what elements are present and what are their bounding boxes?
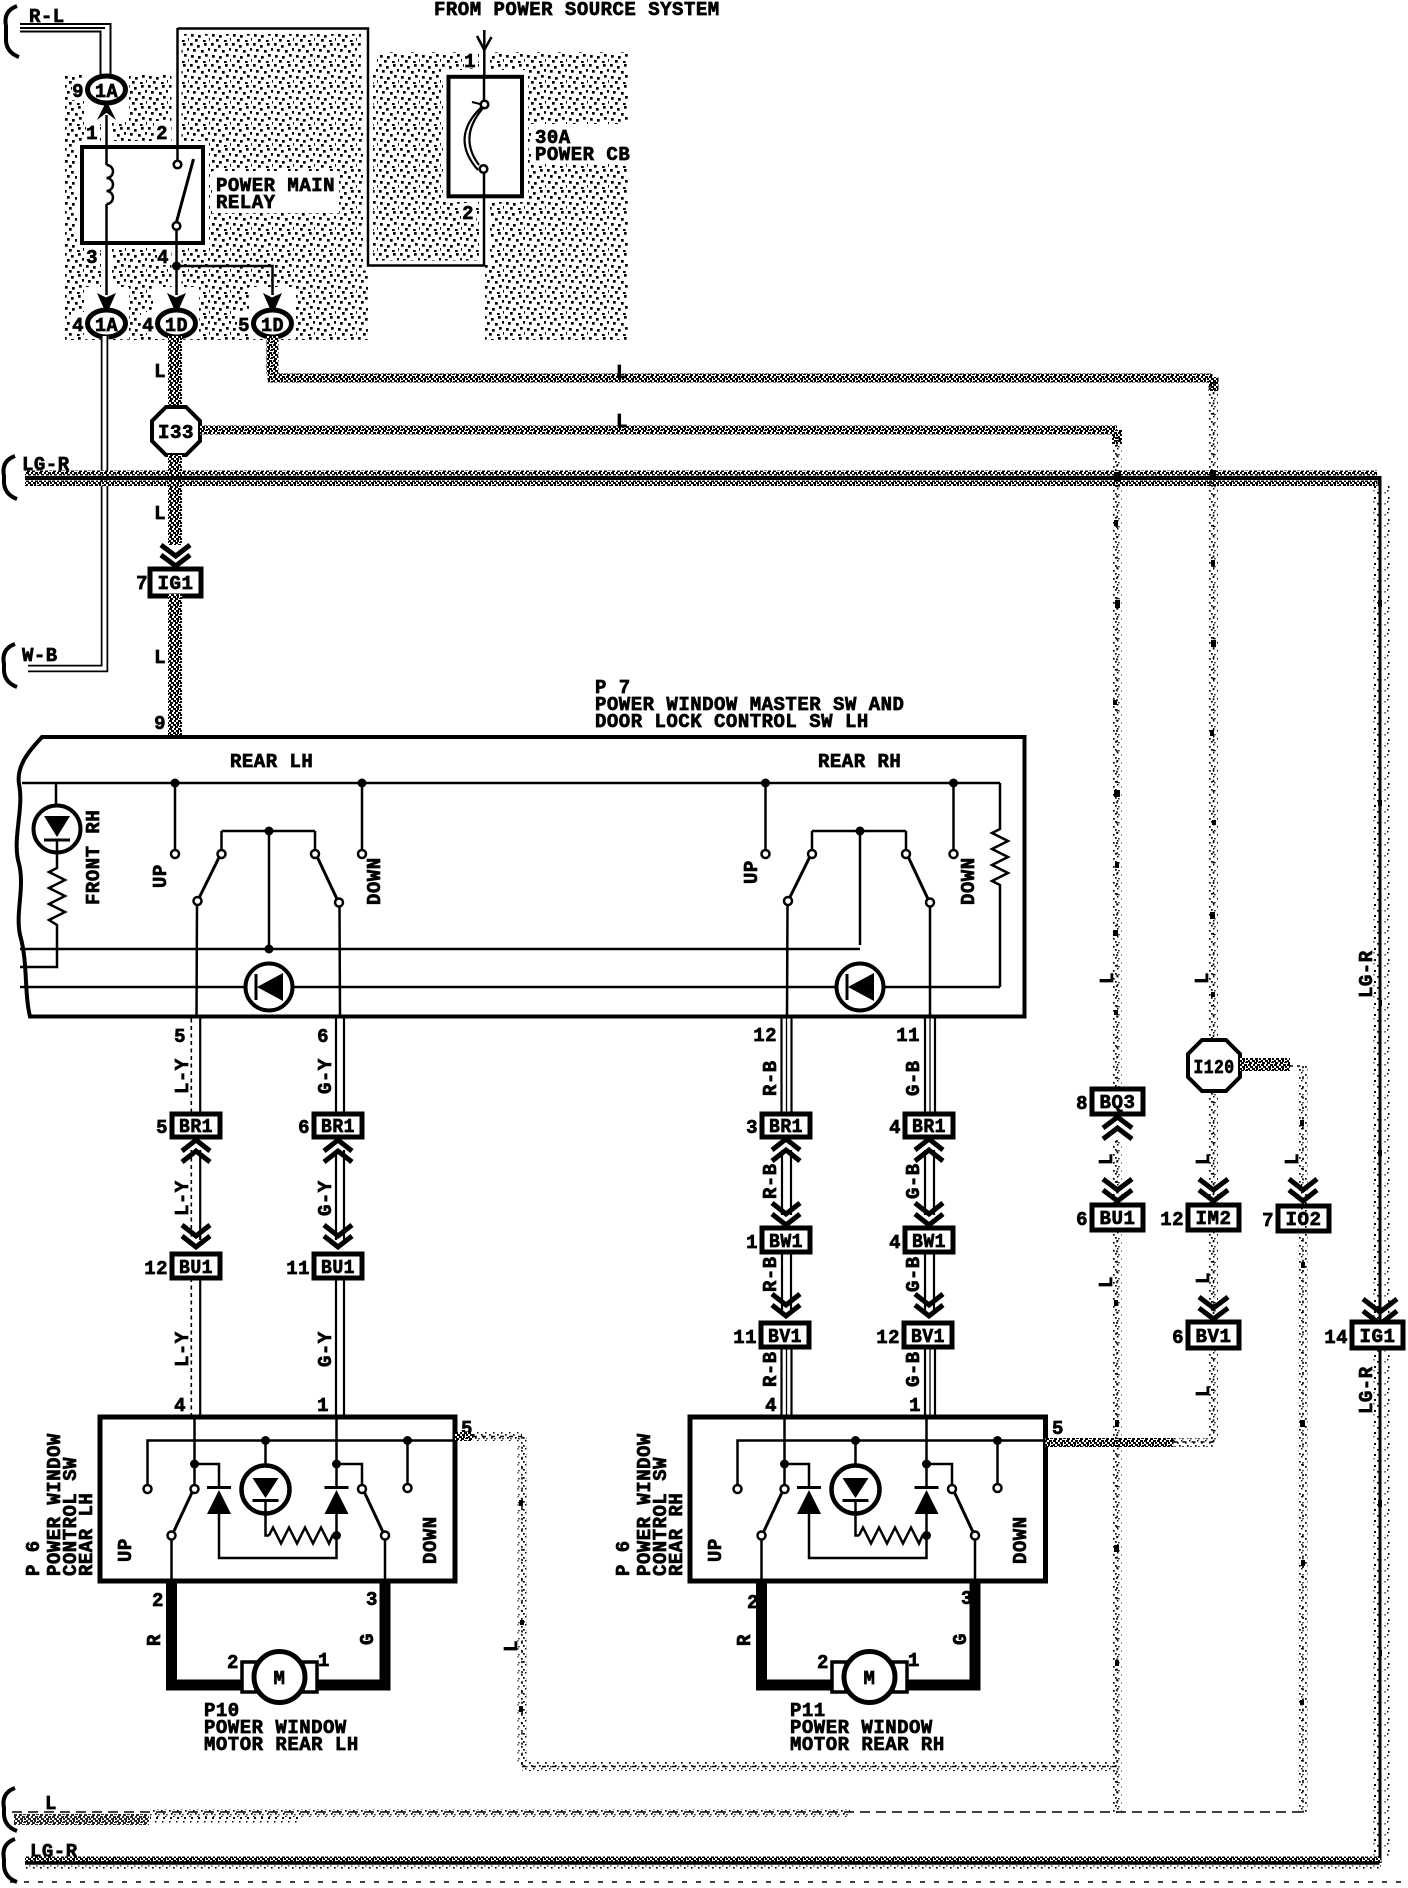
svg-text:6: 6 — [298, 1117, 310, 1139]
svg-text:11: 11 — [733, 1327, 757, 1349]
svg-text:1: 1 — [908, 1650, 920, 1672]
svg-text:R-B: R-B — [760, 1163, 782, 1199]
wire I33 down to IG1 (halftone) — [168, 455, 182, 545]
node LG-R bottom (brace) — [3, 1839, 17, 1882]
wire dashed BV1 down to P6 RH pin5 wire — [1213, 1348, 1215, 1442]
wire R-B P7 pin12 to BR1 (double line with core) — [782, 1017, 792, 1115]
svg-text:BR1: BR1 — [321, 1116, 355, 1138]
svg-text:1: 1 — [909, 1395, 921, 1417]
svg-text:5: 5 — [1052, 1418, 1064, 1440]
motor P11 POWER WINDOW MOTOR REAR RH — [832, 1652, 907, 1703]
pin 4 wire into P6 RH — [783, 1417, 786, 1484]
switch box P6 rear RH — [690, 1417, 1046, 1581]
svg-text:UP: UP — [115, 1538, 137, 1562]
node R-L (brace) — [5, 6, 19, 57]
harness arrows into IO2 (down) — [1289, 1179, 1317, 1201]
svg-text:1A: 1A — [95, 315, 118, 337]
svg-text:UP: UP — [705, 1538, 727, 1562]
svg-text:1D: 1D — [165, 315, 188, 337]
LED indicator P6 LH — [264, 1441, 267, 1467]
svg-text:FROM POWER SOURCE SYSTEM: FROM POWER SOURCE SYSTEM — [434, 0, 720, 21]
connector BV1 pin 6 — [1172, 1322, 1239, 1349]
svg-text:6: 6 — [317, 1026, 329, 1048]
svg-text:4: 4 — [157, 247, 169, 269]
connector 5 (1D) — [238, 310, 291, 337]
wire bus top inside P7 — [22, 782, 1000, 785]
svg-text:7: 7 — [136, 573, 148, 595]
relay switch contact — [173, 28, 194, 243]
svg-text:DOOR LOCK CONTROL SW LH: DOOR LOCK CONTROL SW LH — [595, 711, 869, 733]
wire G-Y BU1 to P6 LH pin1 (double line) — [336, 1278, 344, 1417]
junction I33 — [152, 407, 200, 455]
wire R-L to connector 9 1A (double line) — [20, 24, 111, 77]
harness arrows into IM2 (down) — [1199, 1179, 1228, 1201]
resistor FRONT RH — [20, 852, 65, 967]
resistor REAR RH inside P7 — [992, 783, 1008, 987]
node L bottom (brace) — [3, 1788, 17, 1831]
connector 4 (1D) — [142, 310, 195, 337]
pin 1 wire into P6 RH — [925, 1417, 928, 1488]
node LG-R left (brace) — [3, 456, 17, 499]
svg-text:6: 6 — [1172, 1327, 1184, 1349]
diode DR2 P6 RH — [915, 1486, 939, 1489]
svg-text:BR1: BR1 — [912, 1116, 946, 1138]
svg-text:BV1: BV1 — [911, 1326, 945, 1348]
svg-text:FRONT RH: FRONT RH — [83, 810, 105, 905]
svg-text:REAR RH: REAR RH — [666, 1493, 688, 1576]
svg-text:UP: UP — [741, 860, 763, 884]
wire corner blob at x1117 y430 — [1112, 430, 1122, 444]
connector 9 (1A) — [72, 76, 125, 103]
svg-text:RELAY: RELAY — [216, 192, 276, 214]
svg-text:L-Y: L-Y — [172, 1058, 194, 1094]
REAR LH switch UP contact — [150, 779, 180, 889]
diode DL1 P6 LH — [195, 1464, 220, 1488]
inner bus line P6 LH — [148, 1441, 456, 1489]
svg-text:IM2: IM2 — [1196, 1208, 1232, 1230]
connector BR1 pin 5 — [156, 1114, 220, 1139]
wire diode bus y987 — [20, 986, 1000, 989]
scan noise specks on wires — [519, 470, 1382, 1712]
scan artifact dashed line at page bottom — [10, 1881, 1405, 1883]
svg-text:4: 4 — [889, 1232, 901, 1254]
motor P10 POWER WINDOW MOTOR REAR LH — [242, 1652, 317, 1703]
svg-text:I33: I33 — [158, 422, 194, 444]
harness arrows into IG1 pin14 (down) — [1363, 1299, 1397, 1324]
connector BR1 pin 3 — [746, 1114, 810, 1139]
svg-text:5: 5 — [238, 315, 250, 337]
svg-text:3: 3 — [86, 247, 98, 269]
svg-text:L: L — [154, 361, 166, 383]
connector 4 (1A) — [72, 310, 125, 337]
svg-text:I120: I120 — [1194, 1057, 1235, 1079]
REAR RH switch UP contact — [741, 779, 770, 885]
resistor P6 RH — [859, 1528, 927, 1544]
arrow down to 4 1A — [97, 293, 116, 311]
svg-text:2: 2 — [462, 203, 474, 225]
wire G to motor P11 (thick) — [903, 1581, 975, 1685]
wire relay pin4 down with junction — [175, 243, 178, 295]
svg-text:5: 5 — [156, 1117, 168, 1139]
svg-text:P 6: P 6 — [613, 1540, 635, 1576]
svg-text:R-B: R-B — [760, 1351, 782, 1387]
svg-text:1A: 1A — [95, 81, 118, 103]
svg-text:1: 1 — [464, 51, 476, 73]
wire I120 right stub (halftone) — [1240, 1058, 1290, 1071]
svg-text:R-B: R-B — [760, 1256, 782, 1292]
diode D2 in P7 (right) — [837, 964, 884, 1011]
wire CB pin2 to relay pin2 — [178, 29, 485, 266]
svg-text:BR1: BR1 — [179, 1116, 213, 1138]
svg-text:4: 4 — [765, 1395, 777, 1417]
switch blade DOWN side P6 LH — [365, 1493, 383, 1532]
white margins over stipple — [71, 17, 632, 340]
svg-text:9: 9 — [72, 81, 84, 103]
svg-text:4: 4 — [72, 315, 84, 337]
svg-text:L: L — [154, 647, 166, 669]
junction node pin4 — [172, 262, 181, 271]
pin 4 wire into P6 LH — [193, 1417, 196, 1484]
wire LG-R horizontal and right vertical loop — [25, 471, 1390, 1864]
svg-text:BV1: BV1 — [768, 1326, 802, 1348]
wire dashed BU1 down to bottom L wire — [1116, 1230, 1118, 1813]
wire G to motor P10 (thick) — [313, 1581, 385, 1685]
connector BR1 pin 6 — [298, 1114, 362, 1139]
svg-text:BU1: BU1 — [321, 1257, 355, 1279]
svg-text:BR1: BR1 — [769, 1116, 803, 1138]
relay POWER MAIN RELAY box — [82, 147, 203, 243]
REAR LH switch common and blades — [194, 827, 344, 1017]
diode D1 in P7 (left) — [246, 964, 293, 1011]
arrow chevrons into IG1 — [161, 545, 190, 566]
diode DR1 P6 RH — [785, 1464, 810, 1488]
diode DL2 P6 LH — [325, 1486, 349, 1489]
wire L vertical to BQ3 (dashed) — [1116, 434, 1118, 1089]
svg-text:G-Y: G-Y — [315, 1180, 337, 1216]
svg-text:BQ3: BQ3 — [1100, 1092, 1136, 1114]
svg-text:12: 12 — [753, 1025, 777, 1047]
svg-text:11: 11 — [896, 1025, 920, 1047]
svg-text:7: 7 — [1262, 1210, 1274, 1232]
svg-text:UP: UP — [150, 864, 172, 888]
arrow down to 5 1D — [263, 293, 282, 311]
svg-text:L: L — [616, 411, 628, 433]
wire L-Y P7 pin5 to BR1 (halftone) — [190, 1019, 192, 1115]
svg-text:DOWN: DOWN — [958, 857, 980, 905]
switch box P6 rear LH — [100, 1417, 455, 1581]
svg-text:2: 2 — [817, 1652, 829, 1674]
svg-text:R: R — [144, 1634, 166, 1646]
connector BV1 pin 11 — [733, 1323, 809, 1349]
svg-text:R: R — [734, 1634, 756, 1646]
harness arrows into BU1 (down) — [1103, 1179, 1132, 1201]
svg-text:REAR RH: REAR RH — [818, 751, 901, 773]
svg-text:12: 12 — [144, 1258, 168, 1280]
LED indicator P6 RH — [854, 1441, 857, 1467]
svg-text:12: 12 — [1160, 1209, 1184, 1231]
svg-text:M: M — [274, 1668, 286, 1690]
wire common bus y949 — [20, 948, 860, 951]
svg-text:1: 1 — [86, 123, 98, 145]
connector BW1 pin 4 — [889, 1228, 953, 1254]
switch blade UP side P6 LH — [174, 1493, 192, 1532]
svg-text:G: G — [950, 1633, 972, 1645]
wire 1A to relay pin 1 — [105, 115, 108, 147]
wire R to motor P10 (thick) — [172, 1581, 247, 1685]
wire pin5 P6 RH to BV1 wire (halftone then dashed) — [1046, 1438, 1174, 1447]
svg-text:REAR LH: REAR LH — [76, 1493, 98, 1576]
connector BQ3 pin 8 — [1076, 1089, 1143, 1115]
connector IO2 pin 7 — [1262, 1206, 1329, 1232]
REAR RH switch common and blades — [784, 827, 934, 1017]
svg-text:MOTOR REAR RH: MOTOR REAR RH — [790, 1734, 945, 1756]
svg-text:W-B: W-B — [22, 645, 58, 667]
DOWN fixed contact P6 LH — [406, 1441, 409, 1484]
wire dashed I120 to IM2 — [1213, 1091, 1215, 1205]
switch blade DOWN side P6 RH — [955, 1493, 973, 1532]
harness arrows BR1 to BW1 (G-B) — [915, 1139, 943, 1161]
wire dashed BQ3 to BU1 — [1116, 1140, 1118, 1205]
wire L bottom horizontal — [12, 1811, 1303, 1813]
pin 1 wire into P6 LH — [335, 1417, 338, 1488]
wire from power source down to CB pin 1 — [477, 30, 492, 76]
svg-text:IG1: IG1 — [158, 573, 194, 595]
svg-text:LG-R: LG-R — [1356, 1366, 1378, 1414]
svg-text:DOWN: DOWN — [1010, 1516, 1032, 1564]
arrow down to 4 1D — [167, 293, 186, 311]
wire W-B from 4 1A down (double line) — [28, 336, 109, 669]
inner bus line P6 RH — [738, 1441, 1046, 1489]
svg-text:LG-R: LG-R — [1356, 950, 1378, 998]
wire L vertical to I120 (dashed) — [1213, 382, 1215, 1040]
wire R-B BV1 to P6 RH pin4 — [782, 1347, 792, 1417]
svg-text:L-Y: L-Y — [172, 1331, 194, 1367]
harness arrows BR1 to BU1 (L-Y) — [182, 1140, 210, 1162]
svg-text:P 6: P 6 — [23, 1540, 45, 1576]
wire L-Y BU1 to P6 LH pin4 (halftone) — [190, 1278, 192, 1417]
svg-text:G: G — [357, 1633, 379, 1645]
svg-text:L: L — [616, 362, 628, 384]
svg-text:IG1: IG1 — [1360, 1326, 1396, 1348]
DOWN fixed contact P6 RH — [996, 1441, 999, 1484]
switch box P7 outline — [17, 737, 1025, 1017]
wire relay pin3 down — [105, 243, 108, 295]
LED indicator FRONT RH — [34, 783, 81, 853]
connector BV1 pin 12 — [876, 1323, 952, 1349]
svg-text:REAR LH: REAR LH — [230, 751, 313, 773]
wire R-B BW1 to BV1 — [782, 1252, 791, 1310]
relay coil — [106, 147, 113, 243]
svg-text:6: 6 — [1076, 1209, 1088, 1231]
wire R to motor P11 (thick) — [762, 1581, 837, 1685]
resistor P6 LH — [269, 1528, 337, 1544]
wire LG-R bottom horizontal — [25, 1857, 1381, 1862]
connector BW1 pin 1 — [746, 1228, 810, 1254]
svg-text:1: 1 — [746, 1232, 758, 1254]
svg-text:9: 9 — [154, 713, 166, 735]
svg-text:BU1: BU1 — [1100, 1208, 1136, 1230]
wire G-Y P7 pin6 to BR1 (double line) — [336, 1017, 344, 1115]
harness arrows BR1 to BW1 (R-B) — [772, 1139, 800, 1161]
stipple background top region — [65, 29, 628, 340]
svg-text:G-B: G-B — [903, 1256, 925, 1292]
wire ghost noise bands on faint wires — [150, 382, 1308, 1817]
arrow up into 9 1A — [97, 101, 116, 120]
svg-text:1D: 1D — [261, 315, 284, 337]
svg-text:MOTOR REAR LH: MOTOR REAR LH — [204, 1734, 359, 1756]
svg-text:L-Y: L-Y — [172, 1180, 194, 1216]
svg-text:DOWN: DOWN — [420, 1516, 442, 1564]
svg-text:5: 5 — [174, 1026, 186, 1048]
svg-text:L: L — [154, 503, 166, 525]
connector IG1 pin 14 — [1324, 1322, 1403, 1349]
junction I120 — [1188, 1040, 1240, 1091]
connector IM2 pin 12 — [1160, 1205, 1239, 1231]
switch blade UP side P6 RH — [764, 1493, 782, 1532]
svg-text:BW1: BW1 — [912, 1231, 946, 1253]
svg-text:4: 4 — [889, 1117, 901, 1139]
UP fixed contact P6 LH — [144, 1485, 152, 1493]
svg-text:G-B: G-B — [903, 1060, 925, 1096]
harness arrows BR1 to BU1 (G-Y) — [324, 1140, 352, 1162]
svg-text:4: 4 — [142, 315, 154, 337]
wire L from I33 right (halftone) — [200, 426, 1117, 435]
wire L from 5 1D to right (halftone) — [267, 336, 279, 374]
wire corner blob at x1213 y378 — [1209, 377, 1219, 391]
svg-text:BU1: BU1 — [179, 1257, 213, 1279]
svg-text:M: M — [864, 1668, 876, 1690]
wire IG1 down to P7 pin 9 (halftone) — [168, 594, 182, 735]
wire dashed joining pin5 wires at bottom — [522, 1766, 1117, 1768]
svg-text:BW1: BW1 — [769, 1231, 803, 1253]
wire junction to 5 1D — [177, 266, 273, 295]
harness arrows below BQ3 (up) — [1103, 1117, 1132, 1139]
wire G-B BV1 to P6 RH pin1 — [925, 1347, 935, 1417]
connector BU1 pin 12 — [144, 1254, 220, 1280]
svg-text:3: 3 — [746, 1117, 758, 1139]
wire G-B BW1 to BV1 — [925, 1252, 934, 1310]
svg-text:3: 3 — [366, 1589, 378, 1611]
svg-text:G-Y: G-Y — [315, 1331, 337, 1367]
svg-text:POWER CB: POWER CB — [535, 144, 630, 166]
connector BU1 pin 11 — [286, 1254, 362, 1280]
REAR RH switch DOWN contact — [949, 779, 980, 906]
node W-B (brace) — [3, 644, 17, 687]
svg-text:2: 2 — [227, 1652, 239, 1674]
svg-text:8: 8 — [1076, 1093, 1088, 1115]
wire pin5 P6 LH to right (halftone then dashed) — [455, 1432, 473, 1441]
wire G-B P7 pin11 to BR1 (double line with core) — [925, 1017, 935, 1115]
UP fixed contact P6 RH — [734, 1485, 742, 1493]
svg-text:2: 2 — [156, 123, 168, 145]
wire L from 4 1D to junction I33 (halftone) — [168, 336, 182, 407]
connector BU1 pin 6 — [1076, 1205, 1143, 1231]
svg-text:1: 1 — [317, 1395, 329, 1417]
connector IG1 pin 7 — [136, 569, 201, 596]
svg-text:11: 11 — [286, 1258, 310, 1280]
connector BR1 pin 4 — [889, 1114, 953, 1139]
svg-text:4: 4 — [174, 1395, 186, 1417]
svg-text:14: 14 — [1324, 1327, 1348, 1349]
harness arrows into BV1 (down) — [1199, 1297, 1228, 1319]
wire dashed IM2 to BV1 — [1213, 1230, 1215, 1322]
REAR LH switch DOWN contact — [358, 779, 387, 906]
svg-text:G-B: G-B — [903, 1351, 925, 1387]
svg-text:1: 1 — [318, 1650, 330, 1672]
svg-text:BV1: BV1 — [1196, 1326, 1232, 1348]
svg-text:R-B: R-B — [760, 1060, 782, 1096]
svg-text:12: 12 — [876, 1327, 900, 1349]
svg-text:2: 2 — [152, 1590, 164, 1612]
wire dashed IO2 vertical — [1302, 1066, 1304, 1813]
svg-text:G-Y: G-Y — [315, 1058, 337, 1094]
svg-text:DOWN: DOWN — [364, 857, 386, 905]
svg-text:G-B: G-B — [903, 1163, 925, 1199]
circuit breaker 30A POWER CB — [449, 77, 523, 197]
